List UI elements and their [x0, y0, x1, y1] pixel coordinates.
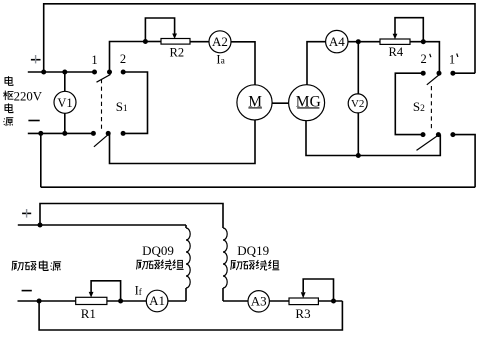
wire: R1 to A1 — [107, 300, 146, 302]
resistor R1 (rheostat) — [76, 281, 121, 321]
svg-text:If: If — [135, 283, 142, 297]
resistor R2 (rheostat) — [145, 18, 190, 60]
switch S1 (DPDT knife) — [91, 70, 128, 147]
wire: terminal 1' to right border — [453, 72, 475, 74]
wire: DQ19 bottom to A3 — [223, 300, 248, 302]
wire: R4 right lead to S2 top middle contact — [410, 42, 439, 73]
generator MG — [289, 85, 325, 121]
wire: MG top to A4 — [307, 42, 326, 85]
ammeter A4 — [326, 30, 348, 52]
svg-text:R1: R1 — [81, 306, 96, 321]
node: junction R3 wiper — [331, 299, 336, 304]
svg-text:V1: V1 — [57, 96, 72, 110]
node: junction R4 wiper — [421, 39, 426, 44]
ammeter A1 — [146, 290, 168, 312]
svg-text:2: 2 — [420, 52, 426, 66]
node: + bus / outer loop junction — [41, 70, 46, 75]
wire: + bus of armature supply — [28, 71, 95, 73]
node: field + junction — [38, 223, 43, 228]
svg-text:S2: S2 — [413, 99, 425, 114]
svg-text:S1: S1 — [116, 99, 128, 114]
wire: − to R1 — [39, 300, 76, 302]
svg-text:1: 1 — [449, 52, 455, 66]
node: V1 top tap — [62, 70, 67, 75]
motor M — [237, 85, 272, 120]
svg-text:Ia: Ia — [216, 53, 225, 67]
label: DQ09 励磁绕组 field winding — [137, 260, 184, 270]
voltmeter V1 — [54, 72, 76, 133]
label: field supply − — [22, 290, 32, 292]
node: junction R1 wiper — [118, 299, 123, 304]
wire: S1 top middle contact riser to R2 junction — [110, 42, 146, 73]
ammeter A2 — [209, 31, 231, 67]
wire: S1 right bracket linking terminal 2 contacts — [123, 72, 147, 133]
inductor DQ09 field winding — [142, 228, 190, 301]
node: field − junction — [37, 299, 42, 304]
wire: A4 to R4 — [348, 41, 380, 43]
svg-text:R3: R3 — [295, 306, 310, 321]
wire: − bus drop to bottom return — [40, 133, 42, 187]
resistor R4 (rheostat) — [380, 18, 423, 60]
voltmeter V2 — [348, 94, 367, 113]
label: armature supply + — [31, 55, 41, 63]
wire: A1 to DQ09 bottom — [168, 300, 186, 302]
wire: V2 branch top — [357, 42, 359, 94]
wire: field + stub — [18, 224, 40, 226]
svg-text:A4: A4 — [329, 34, 345, 49]
switch S2 (DPDT knife) — [413, 71, 456, 151]
wire: A2 to motor M armature — [231, 42, 255, 85]
svg-text:R2: R2 — [170, 46, 185, 60]
wire: bottom return bus — [41, 186, 475, 188]
wire: R2 left lead — [145, 41, 161, 43]
svg-text:1: 1 — [91, 53, 97, 67]
svg-text:220V: 220V — [14, 90, 43, 104]
svg-text:R4: R4 — [389, 45, 404, 59]
wire: MG bottom bus to S2 bottom middle contact — [306, 121, 440, 156]
wire: field return bottom loop — [39, 301, 342, 330]
wire: M bottom to S1 bottom middle contact — [110, 120, 256, 164]
wire: field − stub — [18, 300, 40, 302]
wire: R3 through junction then return loop to − — [318, 300, 342, 302]
wire: A3 to R3 — [269, 300, 289, 302]
wire: field lower feed to DQ09 — [40, 224, 186, 226]
wire: S2 1' bottom contact to right border down to return — [453, 135, 475, 188]
svg-text:A1: A1 — [149, 293, 165, 308]
svg-text:DQ09: DQ09 — [142, 243, 174, 258]
label: field supply + — [22, 209, 31, 218]
label: 励磁电源 field supply — [12, 260, 61, 271]
svg-text:A2: A2 — [212, 34, 228, 49]
node: V1 bottom tap — [62, 131, 67, 136]
svg-text:DQ19: DQ19 — [237, 243, 269, 258]
ammeter A3 — [248, 291, 269, 312]
label: 电枢220V电源 armature supply — [3, 76, 43, 126]
wire: V2 branch bottom — [357, 113, 359, 156]
inductor DQ19 field winding — [223, 228, 269, 301]
svg-text:A3: A3 — [251, 294, 267, 309]
wire: outer loop from + bus up across top down to terminal 1' — [44, 4, 475, 73]
wire: S2 left bracket linking 2' contacts — [395, 73, 423, 134]
wire: field upper feed to DQ19 — [40, 204, 223, 229]
label: armature supply − — [28, 120, 39, 122]
shaft coupling M-MG — [272, 102, 289, 104]
node: junction A4 / V2 branch — [356, 39, 361, 44]
node: − bus / return junction — [38, 131, 43, 136]
resistor R3 (rheostat) — [289, 279, 334, 321]
label: DQ19 励磁绕组 field winding — [231, 260, 280, 270]
wire: − bus of armature supply — [28, 132, 94, 134]
node: junction R2 wiper / S1 riser — [143, 39, 148, 44]
wire: R2 to A2 — [190, 41, 209, 43]
node: V2 bottom junction — [356, 153, 361, 158]
svg-text:V2: V2 — [351, 98, 364, 110]
svg-text:2: 2 — [120, 52, 126, 66]
